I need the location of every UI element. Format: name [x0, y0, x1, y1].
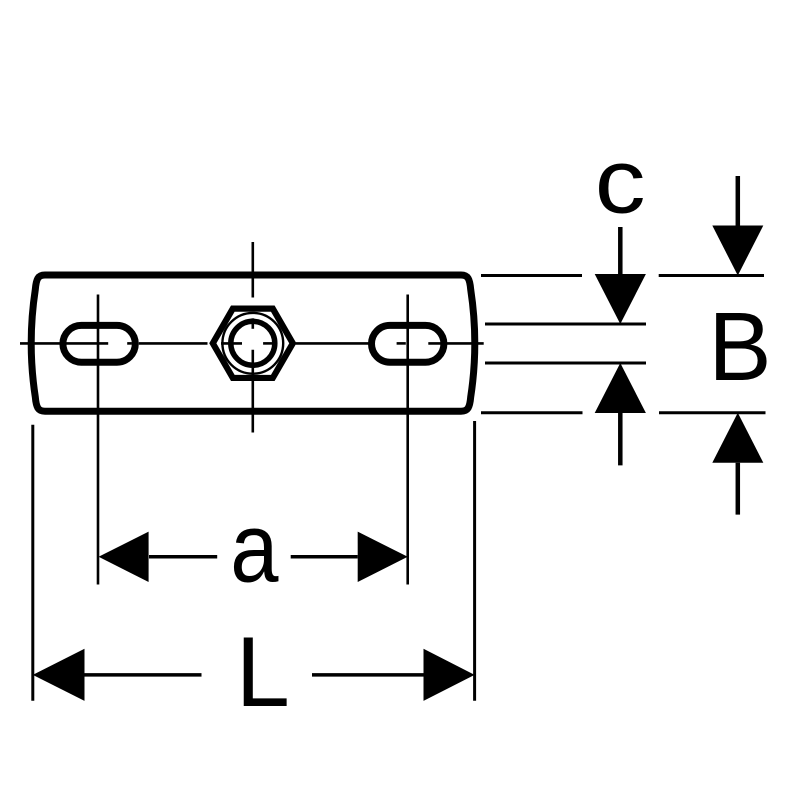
slot hole left: [63, 325, 135, 362]
B down arrow: [736, 176, 741, 226]
c extension line bottom: [485, 362, 646, 365]
L left extension line: [31, 425, 34, 701]
B extension line top: [481, 274, 764, 277]
nut chamfer circle: [222, 313, 283, 374]
L right arrow: [424, 649, 475, 701]
L dimension line: [85, 673, 424, 677]
a right arrow: [358, 532, 408, 582]
B up arrow: [712, 413, 763, 463]
hex nut outline: [213, 309, 293, 378]
L left arrow: [33, 649, 85, 701]
svg-text:B: B: [708, 293, 771, 402]
svg-text:c: c: [595, 131, 646, 232]
a dimension line: [149, 555, 358, 559]
horizontal centerline: [20, 342, 484, 345]
left slot centerline / a extension: [97, 295, 100, 585]
c down arrow: [618, 227, 623, 274]
nut hole circle: [231, 321, 275, 365]
B extension line bottom: [481, 411, 766, 414]
c up arrow: [595, 363, 646, 413]
svg-text:L: L: [236, 616, 290, 727]
slot hole right: [372, 325, 444, 362]
hex vertical centerline: [252, 242, 255, 433]
c extension line top: [485, 323, 646, 326]
a left arrow: [99, 532, 149, 582]
right slot centerline / a extension: [406, 295, 409, 585]
plate outline: [31, 275, 475, 411]
L right extension line: [473, 421, 476, 701]
svg-text:a: a: [230, 492, 279, 603]
